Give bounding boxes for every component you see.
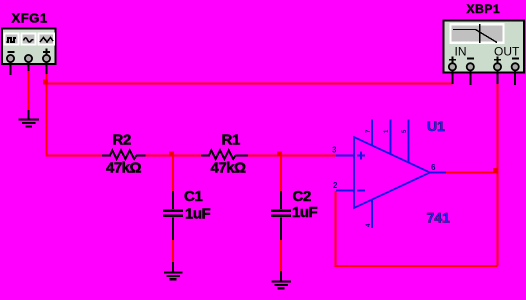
op-amp top pin 7 (366, 120, 372, 146)
ground (C1) (164, 262, 183, 279)
node B: junction dot R2/R1/C1 (169, 152, 174, 157)
ground (XFG1 COM) (19, 110, 40, 127)
svg-text:R1: R1 (222, 132, 241, 149)
XBP1 terminal IN- (pin, stub) (467, 63, 474, 85)
svg-text:IN: IN (455, 45, 467, 59)
node A: junction dot at XFG1 +/top wire (43, 80, 48, 85)
wire: top horizontal from input node to XBP1 IN+ (47, 83, 453, 85)
wire: node B down to C1 (172, 156, 174, 193)
wire: XFG1 COM terminal to ground (28, 70, 30, 111)
wire: node B to R1 left lead (173, 155, 201, 157)
node D: junction dot at output (493, 168, 498, 173)
XBP1 IN- polarity (467, 58, 474, 60)
XBP1 terminal IN+ (pin) (449, 63, 456, 84)
XBP1 terminal OUT- (pin, stub) (512, 63, 519, 85)
wire: node C down to C2 (280, 156, 282, 193)
XFG1 sine wave button (22, 34, 36, 45)
XBP1 screen (451, 24, 504, 43)
capacitor C1 (163, 191, 183, 240)
XBP1 bode plotter body (444, 21, 525, 73)
XFG1 plus polarity mark (43, 49, 50, 56)
XFG1 square wave button (5, 34, 19, 45)
svg-text:47kΩ: 47kΩ (106, 160, 142, 177)
XFG1 terminal + (pin) (43, 55, 50, 74)
op-amp bottom pin 4 (366, 200, 372, 229)
op-amp top pin 1 (384, 120, 391, 155)
wire: C1 bottom to its ground (172, 239, 174, 263)
ground (C2) (272, 271, 292, 288)
wire: node C to op-amp pin 3 (281, 155, 337, 157)
op-amp top pin 5 (402, 120, 409, 163)
svg-text:C2: C2 (293, 188, 312, 205)
XFG1 minus polarity mark (8, 51, 15, 53)
XBP1 terminal OUT+ (pin) (494, 63, 501, 84)
svg-text:XFG1: XFG1 (12, 11, 48, 26)
svg-text:U1: U1 (427, 118, 445, 134)
svg-text:47kΩ: 47kΩ (211, 160, 247, 177)
capacitor C2 (271, 191, 291, 240)
svg-text:6: 6 (431, 163, 436, 172)
svg-text:XBP1: XBP1 (467, 2, 501, 16)
resistor R1 (201, 150, 248, 159)
op-amp U1 triangle (354, 137, 430, 208)
op-amp output pin 6 (430, 172, 446, 174)
svg-text:1uF: 1uF (185, 206, 211, 223)
XBP1 OUT- polarity (512, 58, 519, 60)
svg-text:2: 2 (333, 181, 338, 190)
svg-text:R2: R2 (113, 132, 132, 149)
op-amp pin 3 (non-inverting input) (336, 152, 365, 160)
wire: C2 bottom to its ground (280, 239, 282, 272)
op-amp pin 2 (inverting input) (336, 190, 365, 192)
XFG1 terminal COM (pin) (25, 55, 32, 71)
node C: junction dot R1/C2/op-amp input (277, 152, 282, 157)
XBP1 IN+ polarity (449, 56, 456, 63)
wire: XBP1 OUT+ down through output node to feedback (497, 84, 499, 267)
XFG1 function generator body (2, 29, 56, 65)
svg-text:1uF: 1uF (292, 204, 318, 221)
wire: XFG1 + terminal down and right to R2 (input node) (47, 73, 103, 156)
XFG1 terminal - (pin) (7, 55, 14, 75)
svg-text:3: 3 (332, 146, 337, 155)
XBP1 OUT+ polarity (494, 56, 501, 63)
resistor R2 (102, 150, 146, 159)
wire: R1 right lead to node C (248, 155, 282, 157)
XFG1 triangle wave button (39, 34, 55, 45)
wire: feedback loop from pin 2 down and right (336, 191, 498, 266)
svg-text:741: 741 (427, 210, 451, 226)
wire: op-amp output pin 6 to output node (446, 172, 498, 174)
wire: R2 right lead to node B (146, 155, 175, 157)
svg-text:C1: C1 (184, 188, 203, 205)
